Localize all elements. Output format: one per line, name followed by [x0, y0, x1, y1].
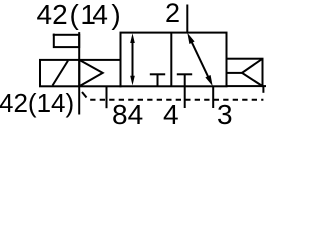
label 42(14) bottom	[0, 88, 75, 119]
air spring triangle (points left)	[242, 59, 263, 86]
manual override box left edge tick	[53, 34, 55, 36]
port 84 line (pilot exhaust)	[106, 86, 108, 108]
valve body outline	[121, 33, 227, 87]
manual override stem	[78, 32, 80, 114]
manual override box	[54, 35, 79, 47]
blocked port T (left square)	[150, 74, 165, 86]
leader tick for 42(14)	[82, 92, 87, 98]
pilot dashed line vertical riser	[262, 86, 264, 93]
pilot dashed line horizontal	[90, 99, 263, 101]
label 2	[165, 0, 180, 29]
air spring box (right actuator)	[227, 59, 263, 86]
port 3 line (bottom)	[212, 86, 214, 108]
pilot triangle (points right)	[79, 60, 102, 86]
port 4 line (bottom)	[184, 86, 186, 108]
wire continuation at right edge	[262, 85, 267, 87]
label 3	[217, 99, 233, 131]
label 84	[112, 99, 143, 131]
valve body divider	[170, 33, 172, 87]
flow arrow (right square, diagonal double arrow 2-3)	[187, 33, 212, 86]
label 4	[163, 99, 179, 131]
air spring wire	[227, 72, 243, 74]
flow arrow (left square, vertical double arrow)	[130, 33, 135, 85]
pilot assembly divider	[78, 60, 80, 86]
blocked port T (right square)	[177, 74, 192, 86]
solenoid coil diagonal	[53, 61, 69, 86]
port 2 line (top)	[186, 5, 188, 33]
pilot assembly outer box	[40, 60, 121, 86]
